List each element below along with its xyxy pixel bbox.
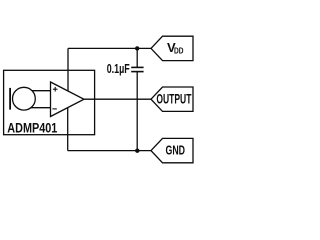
wire GND pin (op-amp bottom down) bbox=[67, 105, 69, 151]
wire VDD pin (op-amp top to VDD rail) bbox=[67, 48, 69, 91]
svg-text:OUTPUT: OUTPUT bbox=[156, 92, 191, 107]
node GND junction bbox=[135, 149, 139, 153]
wire OUTPUT bbox=[84, 98, 151, 100]
microphone backplate bar bbox=[9, 88, 11, 110]
connector tag OUTPUT bbox=[151, 87, 193, 111]
wire capacitor top lead bbox=[136, 48, 138, 67]
svg-text:GND: GND bbox=[166, 144, 186, 158]
svg-text:0.1µF: 0.1µF bbox=[107, 62, 130, 76]
op-amp - input marking bbox=[52, 108, 56, 110]
node VDD junction bbox=[135, 46, 139, 50]
capacitor 0.1uF plates bbox=[131, 66, 143, 68]
microphone element circle bbox=[13, 87, 36, 110]
wire microphone to - input bbox=[24, 107, 51, 109]
op-amp U1 triangle bbox=[51, 82, 85, 117]
svg-text:ADMP401: ADMP401 bbox=[7, 121, 57, 137]
ADMP401 module box bbox=[4, 70, 95, 134]
wire capacitor bottom lead bbox=[136, 72, 138, 151]
svg-text:DD: DD bbox=[174, 47, 184, 56]
op-amp + input marking bbox=[53, 88, 58, 90]
wire VDD rail bbox=[68, 47, 151, 49]
wire GND rail bbox=[68, 150, 151, 152]
connector tag GND bbox=[151, 138, 193, 162]
connector tag VDD bbox=[151, 36, 193, 60]
wire microphone to + input bbox=[24, 90, 51, 92]
